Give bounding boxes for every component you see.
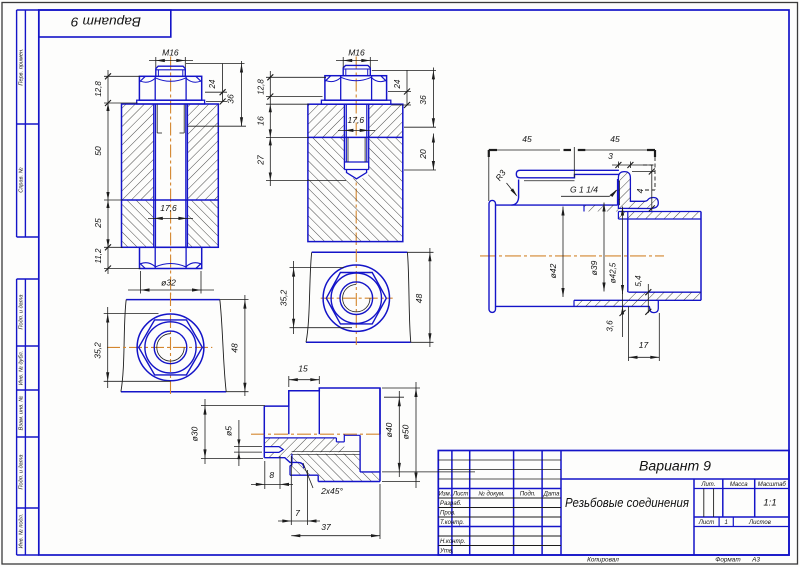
stud view B	[345, 104, 347, 162]
svg-text:ø42: ø42	[548, 263, 558, 278]
view E centerline	[480, 255, 664, 257]
view C hexagon	[139, 320, 203, 375]
svg-text:Инв. № подл.: Инв. № подл.	[19, 514, 25, 549]
svg-text:7: 7	[295, 508, 300, 518]
view C washer circle	[137, 314, 204, 381]
svg-text:8: 8	[269, 470, 274, 480]
svg-text:Изм.: Изм.	[439, 492, 452, 498]
bolt shank view A	[155, 104, 157, 247]
view F thread joint lines	[292, 451, 360, 453]
dim 4 view E	[632, 171, 655, 173]
svg-text:2х45°: 2х45°	[320, 486, 343, 496]
svg-text:15: 15	[298, 364, 308, 374]
bolt thread lines view A	[156, 104, 158, 133]
view C plate edges	[126, 299, 220, 301]
svg-text:50: 50	[93, 146, 103, 156]
svg-text:Пров.: Пров.	[440, 511, 456, 517]
svg-text:48: 48	[414, 294, 424, 304]
view F upper profile	[264, 388, 380, 434]
svg-text:Вариант 9: Вариант 9	[639, 459, 711, 474]
svg-text:Дата: Дата	[543, 492, 560, 498]
dim o42.5 view E	[622, 207, 624, 295]
svg-text:ø30: ø30	[190, 426, 200, 441]
svg-text:ø32: ø32	[161, 278, 176, 288]
svg-text:М16: М16	[162, 48, 179, 58]
svg-text:Справ. №: Справ. №	[19, 167, 25, 192]
dim o32 view A	[140, 271, 142, 294]
dim 3 view E	[617, 162, 619, 169]
svg-text:12,8: 12,8	[256, 79, 265, 95]
bolt end view B	[343, 65, 370, 75]
svg-text:G 1 1/4: G 1 1/4	[570, 185, 598, 195]
cap top bar	[516, 170, 619, 178]
dim 35.2 view D	[290, 267, 345, 269]
svg-text:24: 24	[393, 79, 402, 89]
dim o5 view F	[234, 445, 262, 447]
view D break lines	[306, 252, 312, 342]
fitting top band section	[584, 205, 618, 211]
view F bore lines	[264, 437, 336, 439]
svg-text:ø40: ø40	[384, 422, 394, 437]
svg-text:45: 45	[522, 134, 532, 144]
left margin stamp column	[16, 10, 18, 237]
nut bottom hook	[649, 300, 658, 312]
top-left variant box	[39, 10, 171, 37]
dim 3.6 view E	[622, 293, 624, 338]
plates outline view A	[122, 104, 219, 247]
svg-text:17,6: 17,6	[160, 203, 177, 213]
svg-text:11,2: 11,2	[94, 248, 103, 264]
view A top plate hatch	[122, 104, 219, 200]
dim 8 view F	[264, 461, 266, 489]
svg-text:Вариант 9: Вариант 9	[71, 15, 141, 30]
svg-text:36: 36	[226, 94, 236, 104]
dim o42 view E	[562, 207, 564, 298]
view D plate edges	[312, 251, 408, 253]
dim o39 view E	[603, 203, 605, 292]
wire: left margin lower stamps	[16, 279, 18, 555]
svg-text:20: 20	[418, 149, 428, 160]
svg-text:Лист: Лист	[452, 492, 468, 498]
nut thread double line top	[617, 179, 619, 205]
view F plug hatch	[292, 454, 380, 482]
svg-text:ø39: ø39	[589, 260, 599, 275]
svg-text:Утв.: Утв.	[439, 549, 454, 555]
svg-text:12,8: 12,8	[94, 81, 103, 97]
dim 12.8 / 50 / 25 / 11.2 view A (left)	[107, 70, 109, 274]
nut view A	[139, 76, 201, 100]
cap flange capsule	[489, 200, 496, 312]
view F o5 channel	[262, 447, 281, 452]
view D chamfer circle	[331, 273, 381, 323]
dim 45 / 45 top view E	[488, 150, 490, 201]
svg-text:17: 17	[639, 340, 649, 350]
svg-text:Подп.: Подп.	[520, 492, 536, 498]
view C centerlines	[107, 346, 212, 348]
svg-text:35,2: 35,2	[92, 342, 102, 359]
dim M16 view A	[155, 57, 157, 68]
svg-text:А3: А3	[751, 557, 760, 564]
svg-text:Н.контр.: Н.контр.	[440, 539, 465, 545]
view D hole circle	[340, 282, 373, 315]
fitting bottom band section	[574, 300, 649, 306]
dim 17 view E	[628, 306, 630, 361]
dim M16 view B	[342, 57, 344, 68]
dim 5.4 view E	[647, 284, 649, 313]
svg-text:Подп. и дата: Подп. и дата	[19, 454, 25, 489]
dim 7 view F	[290, 456, 292, 525]
dim o40 view F	[384, 396, 404, 398]
svg-text:ø50: ø50	[401, 424, 411, 439]
svg-text:Лист: Лист	[698, 520, 714, 526]
bolt end view A	[156, 66, 186, 76]
svg-text:Разраб.: Разраб.	[440, 501, 462, 507]
bolt hole lines view A	[153, 104, 155, 247]
svg-text:Листов: Листов	[748, 520, 771, 526]
svg-text:Лит.: Лит.	[700, 482, 715, 488]
svg-text:Подп. и дата: Подп. и дата	[19, 294, 25, 329]
svg-text:3,6: 3,6	[606, 320, 615, 332]
view F plug outline	[291, 454, 293, 466]
view B centerline	[355, 57, 357, 246]
bottom head view A	[140, 247, 202, 268]
svg-text:48: 48	[230, 343, 240, 353]
svg-text:Масштаб: Масштаб	[758, 482, 787, 488]
title block outline	[438, 451, 789, 556]
svg-text:25: 25	[93, 218, 103, 229]
dims 24 / 36 / 20 view B (right)	[372, 69, 436, 71]
view C chamfer circle	[145, 322, 196, 373]
svg-text:16: 16	[255, 116, 265, 126]
bar thread line	[524, 180, 575, 182]
dims 12.8 / 16 / 27 view B (left)	[269, 71, 271, 186]
svg-text:45: 45	[610, 134, 620, 144]
svg-text:3: 3	[608, 151, 613, 161]
view F centerline	[251, 433, 383, 435]
svg-text:Взам. инв. №: Взам. инв. №	[19, 396, 25, 431]
view F fitting wall hatch	[264, 438, 344, 458]
dashed bracket right view E	[654, 157, 656, 190]
svg-text:Резьбовые соединения: Резьбовые соединения	[565, 495, 689, 510]
svg-text:17,6: 17,6	[348, 115, 365, 125]
dim o30 view F	[201, 405, 265, 407]
stud point / drill cone view B	[347, 170, 367, 179]
svg-text:Масса: Масса	[730, 482, 748, 488]
dim 24 / 36 view A (right)	[186, 63, 245, 65]
dim 17.6 view A	[148, 217, 193, 219]
dim 48 view C	[220, 299, 249, 301]
tube outline right	[700, 212, 702, 301]
stud thread lines view B	[347, 137, 349, 162]
dim 15 view F	[288, 376, 290, 387]
tube bottom wall section	[628, 291, 701, 293]
svg-text:35,2: 35,2	[278, 289, 288, 306]
plate and body outline view B	[308, 104, 403, 241]
dim 35.2 view C	[104, 313, 159, 315]
view F left collar lower	[263, 434, 265, 457]
cap top surface	[496, 204, 618, 206]
svg-text:М16: М16	[348, 48, 365, 58]
union nut wall section	[618, 172, 658, 209]
view C hole circle	[154, 331, 187, 364]
chamfer leader 2x45 view F	[303, 463, 313, 488]
view D washer circle	[323, 265, 389, 331]
svg-text:Инв. № дубл.: Инв. № дубл.	[19, 351, 25, 385]
dim o50 view F	[382, 387, 420, 389]
svg-text:ø42,5: ø42,5	[609, 262, 618, 283]
svg-text:Копировал: Копировал	[587, 557, 619, 564]
svg-text:Формат: Формат	[715, 557, 741, 564]
cap bottom surface	[496, 305, 650, 307]
dim 17.6 view B	[338, 129, 375, 131]
view C thread arc	[157, 334, 184, 361]
dim 48 view D	[407, 251, 433, 253]
title block horizontal lines	[561, 478, 789, 480]
view A bottom plate hatch	[122, 200, 219, 247]
svg-text:27: 27	[255, 155, 265, 166]
nut view B	[325, 76, 387, 101]
tube top wall section	[618, 212, 701, 220]
view A centerline	[170, 57, 172, 296]
washer view B	[321, 100, 390, 104]
svg-text:5,4: 5,4	[634, 275, 643, 287]
washer view A	[137, 100, 205, 104]
plate hole view B	[343, 104, 345, 137]
svg-text:Т.контр.: Т.контр.	[440, 520, 464, 526]
svg-text:37: 37	[321, 522, 331, 532]
svg-text:Перв. примен.: Перв. примен.	[19, 48, 25, 85]
svg-text:36: 36	[418, 95, 428, 105]
view B upper plate hatch	[308, 104, 403, 137]
svg-text:ø5: ø5	[224, 426, 234, 436]
view D hexagon	[326, 273, 386, 324]
dim 37 view F	[379, 484, 381, 539]
view D thread arc	[343, 285, 370, 312]
Lit sub cells	[703, 489, 705, 518]
view C break lines	[121, 300, 126, 392]
view B body hatch	[308, 137, 403, 241]
svg-text:1: 1	[725, 520, 728, 526]
svg-text:24: 24	[208, 79, 217, 89]
svg-text:1:1: 1:1	[763, 498, 776, 509]
cap fillet R3	[512, 180, 519, 206]
title block vertical blue lines	[451, 451, 453, 556]
svg-text:№ докум.: № докум.	[478, 491, 504, 498]
svg-text:4: 4	[635, 188, 645, 193]
view D centerlines	[321, 297, 393, 299]
